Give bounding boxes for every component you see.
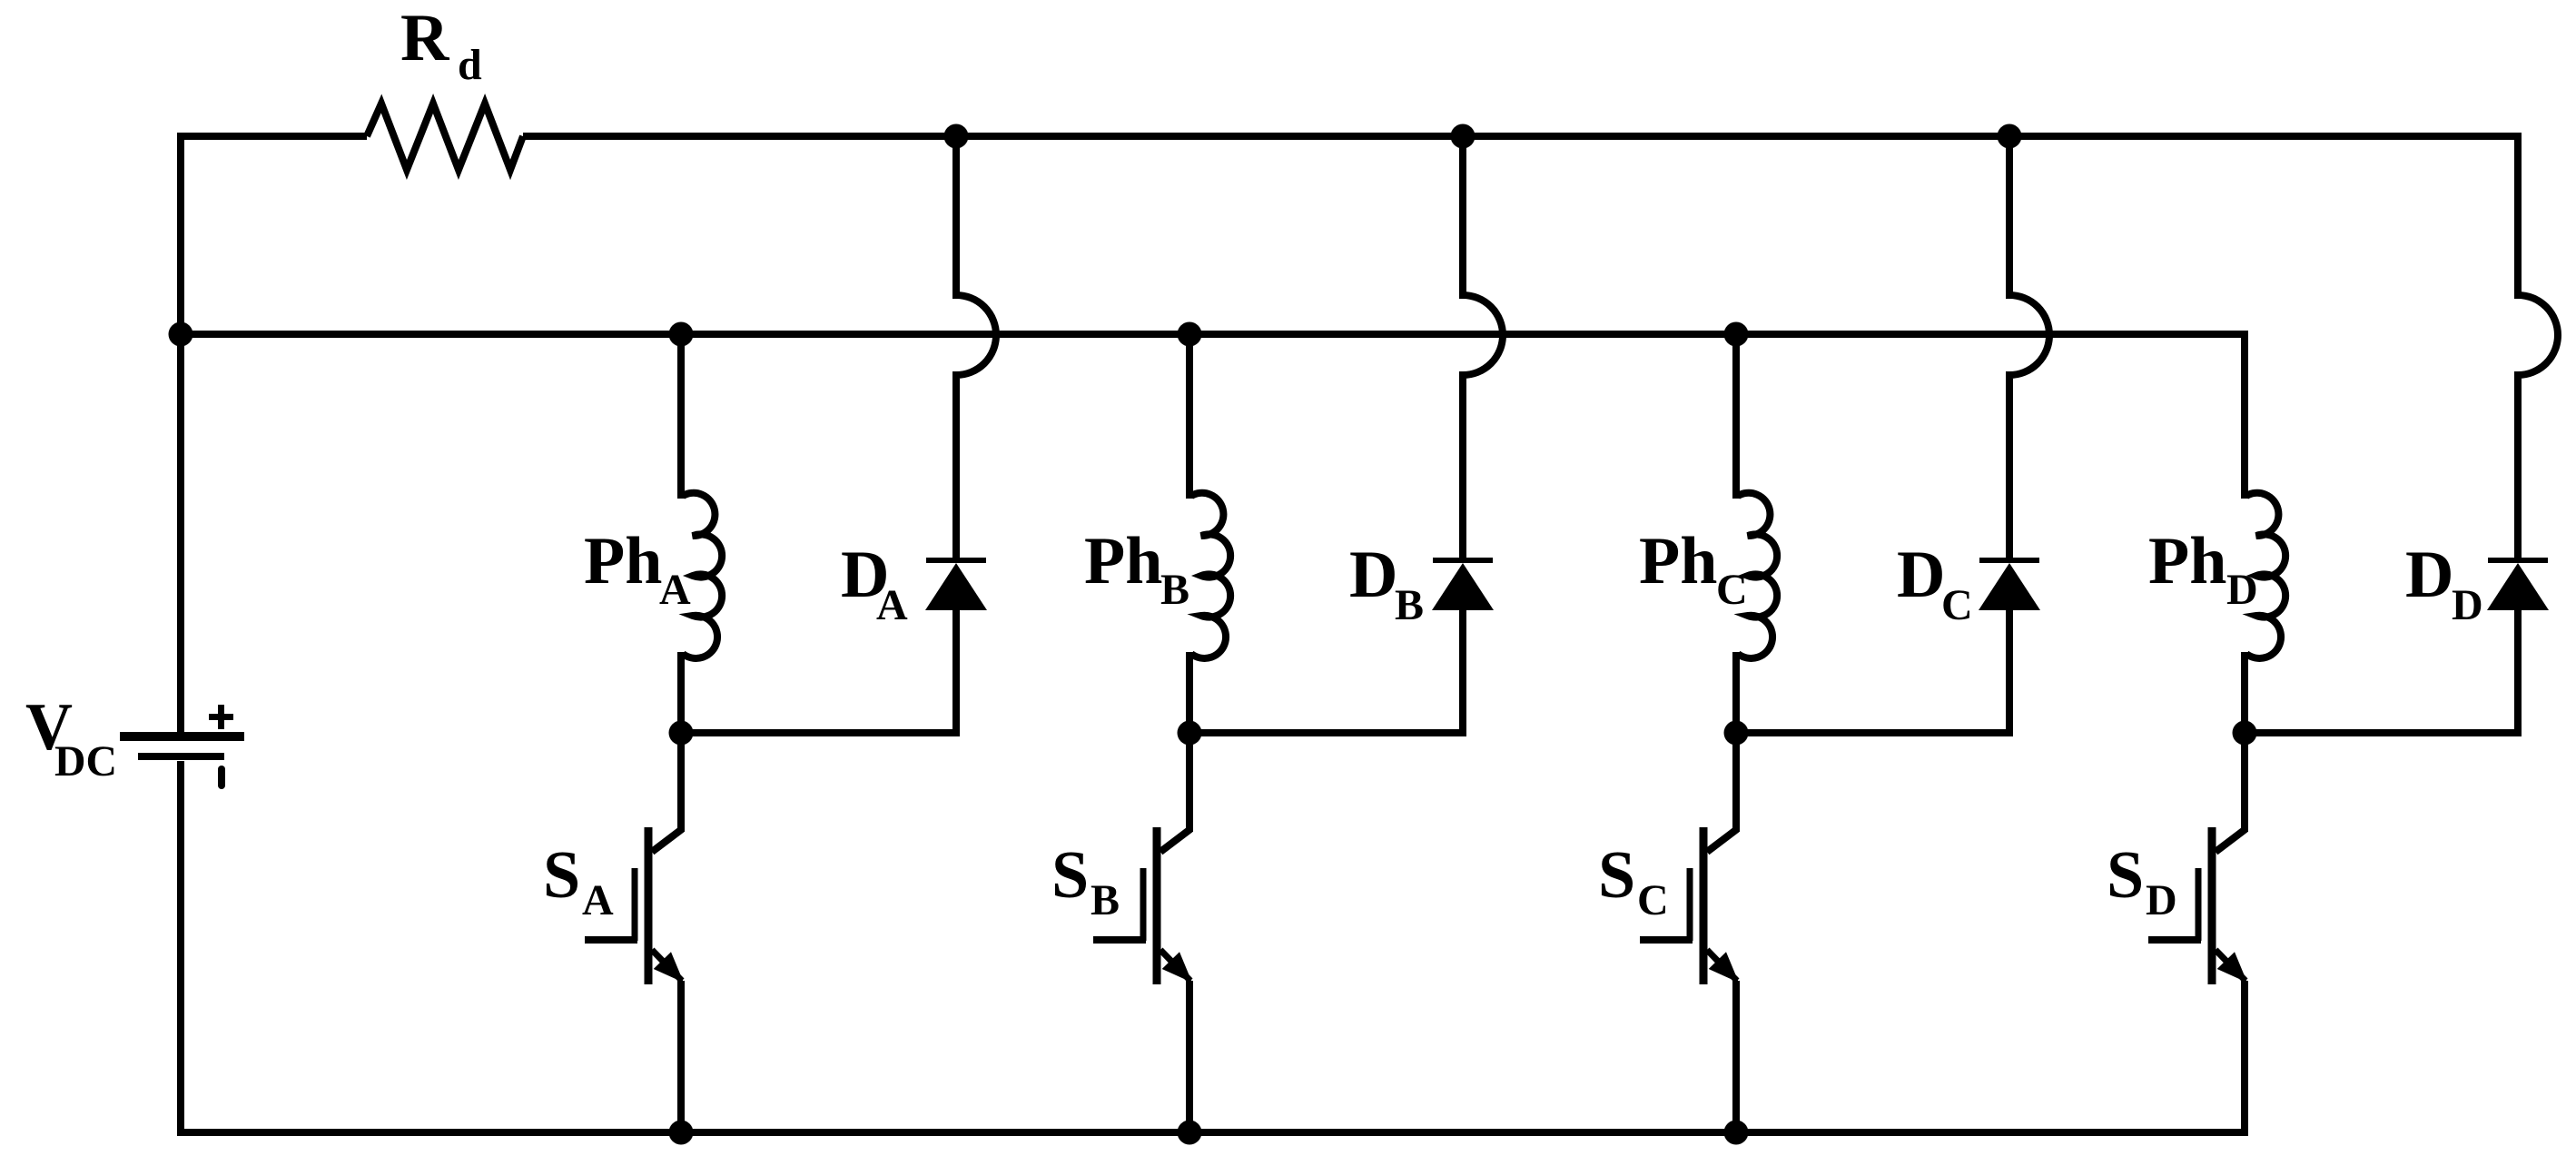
diode DC [1979,558,2040,610]
label DC [1897,538,1973,629]
wire top rail [523,133,2522,140]
label PhA [584,524,691,614]
label PhD [2148,524,2258,614]
node DA tap on top rail [944,124,969,149]
wire phase A junction to diode anode [681,729,960,736]
wire SB collector lead [1186,733,1193,832]
wire left vertical lower (V- to bottom rail) [177,761,184,1132]
label DB [1349,538,1424,629]
label SD [2107,838,2177,924]
wire SA emitter lead [677,981,685,1132]
svg-text:Ph: Ph [2148,524,2226,598]
svg-text:B: B [1091,876,1120,924]
node phase A inductor tap on second rail [669,322,694,347]
svg-text:A: A [876,581,908,629]
diode DD [2487,558,2549,610]
node phase B midpoint junction [1178,721,1202,746]
label SB [1051,838,1120,924]
svg-text:S: S [1598,838,1635,913]
wire SC emitter lead [1732,981,1740,1132]
svg-text:D: D [2405,538,2453,612]
wire PhC top lead [1732,334,1740,499]
inductor PhA winding [683,493,722,658]
svg-text:S: S [543,838,580,913]
svg-text:B: B [1160,566,1189,614]
wire PhD top lead [2241,331,2248,499]
svg-text:D: D [2146,876,2177,924]
wire PhB bottom lead [1186,652,1193,733]
wire DA anode lead [952,607,960,733]
svg-text:C: C [1716,566,1748,614]
diode DA [925,558,987,610]
wire PhD bottom lead [2241,652,2248,733]
label DA [841,538,908,629]
svg-text:R: R [400,1,450,75]
svg-text:Ph: Ph [1639,524,1717,598]
svg-text:S: S [2107,838,2144,913]
node phase C midpoint junction [1724,721,1749,746]
resistor Rd [367,104,523,170]
label Rd [400,1,482,89]
diode DB [1432,558,1494,610]
wire DB anode lead [1459,607,1466,733]
wire phase D junction to diode anode [2245,729,2522,736]
wire DC anode lead [2006,607,2013,733]
svg-text:Ph: Ph [584,524,662,598]
svg-text:A: A [582,876,614,924]
wire second rail [181,331,2245,338]
node phase D midpoint junction [2233,721,2257,746]
wire left vertical upper (V+ to top rail) [177,133,184,733]
svg-text:D: D [1897,538,1945,612]
node second rail left junction [169,322,193,347]
battery VDC [120,705,244,789]
wire DD cathode lead with hop over second rail [2518,136,2558,558]
svg-text:D: D [1349,538,1397,612]
node phase B inductor tap on second rail [1178,322,1202,347]
label SC [1598,838,1669,924]
wire PhC bottom lead [1732,652,1740,733]
wire PhB top lead [1186,334,1193,499]
node SB emitter junction on bottom rail [1178,1121,1202,1145]
wire SB emitter lead [1186,981,1193,1132]
transistor SD (IGBT) [2148,827,2247,984]
wire SD collector lead [2241,733,2248,832]
svg-text:B: B [1395,581,1424,629]
wire bottom rail [177,1129,2245,1136]
wire PhA bottom lead [677,652,685,733]
wire SA collector lead [677,733,685,832]
svg-text:S: S [1051,838,1089,913]
label VDC [25,690,117,786]
wire phase B junction to diode anode [1189,729,1466,736]
transistor SA (IGBT) [585,827,684,984]
node SC emitter junction on bottom rail [1724,1121,1749,1145]
wire DD anode lead [2514,607,2522,733]
label PhC [1639,524,1748,614]
inductor PhC winding [1738,493,1777,658]
node DC tap on top rail [1998,124,2022,149]
label PhB [1084,524,1189,614]
node SA emitter junction on bottom rail [669,1121,694,1145]
wire SD emitter lead [2241,981,2248,1136]
label SA [543,838,614,924]
node DB tap on top rail [1451,124,1476,149]
wire DA cathode lead with hop over second rail [956,136,996,558]
svg-text:C: C [1637,876,1669,924]
svg-text:d: d [458,41,482,89]
svg-text:D: D [2226,566,2258,614]
svg-text:DC: DC [54,737,117,786]
wire DC cathode lead with hop over second rail [2009,136,2049,558]
transistor SC (IGBT) [1640,827,1739,984]
label DD [2405,538,2483,629]
wire PhA top lead [677,334,685,499]
wire top rail left segment [177,133,367,140]
wire phase C junction to diode anode [1736,729,2013,736]
wire SC collector lead [1732,733,1740,832]
wire DB cathode lead with hop over second rail [1463,136,1503,558]
inductor PhB winding [1191,493,1230,658]
svg-text:A: A [659,566,691,614]
inductor PhD winding [2246,493,2285,658]
svg-text:Ph: Ph [1084,524,1162,598]
svg-text:D: D [2452,581,2483,629]
node phase A midpoint junction [669,721,694,746]
transistor SB (IGBT) [1093,827,1192,984]
svg-text:C: C [1941,581,1973,629]
node phase C inductor tap on second rail [1724,322,1749,347]
